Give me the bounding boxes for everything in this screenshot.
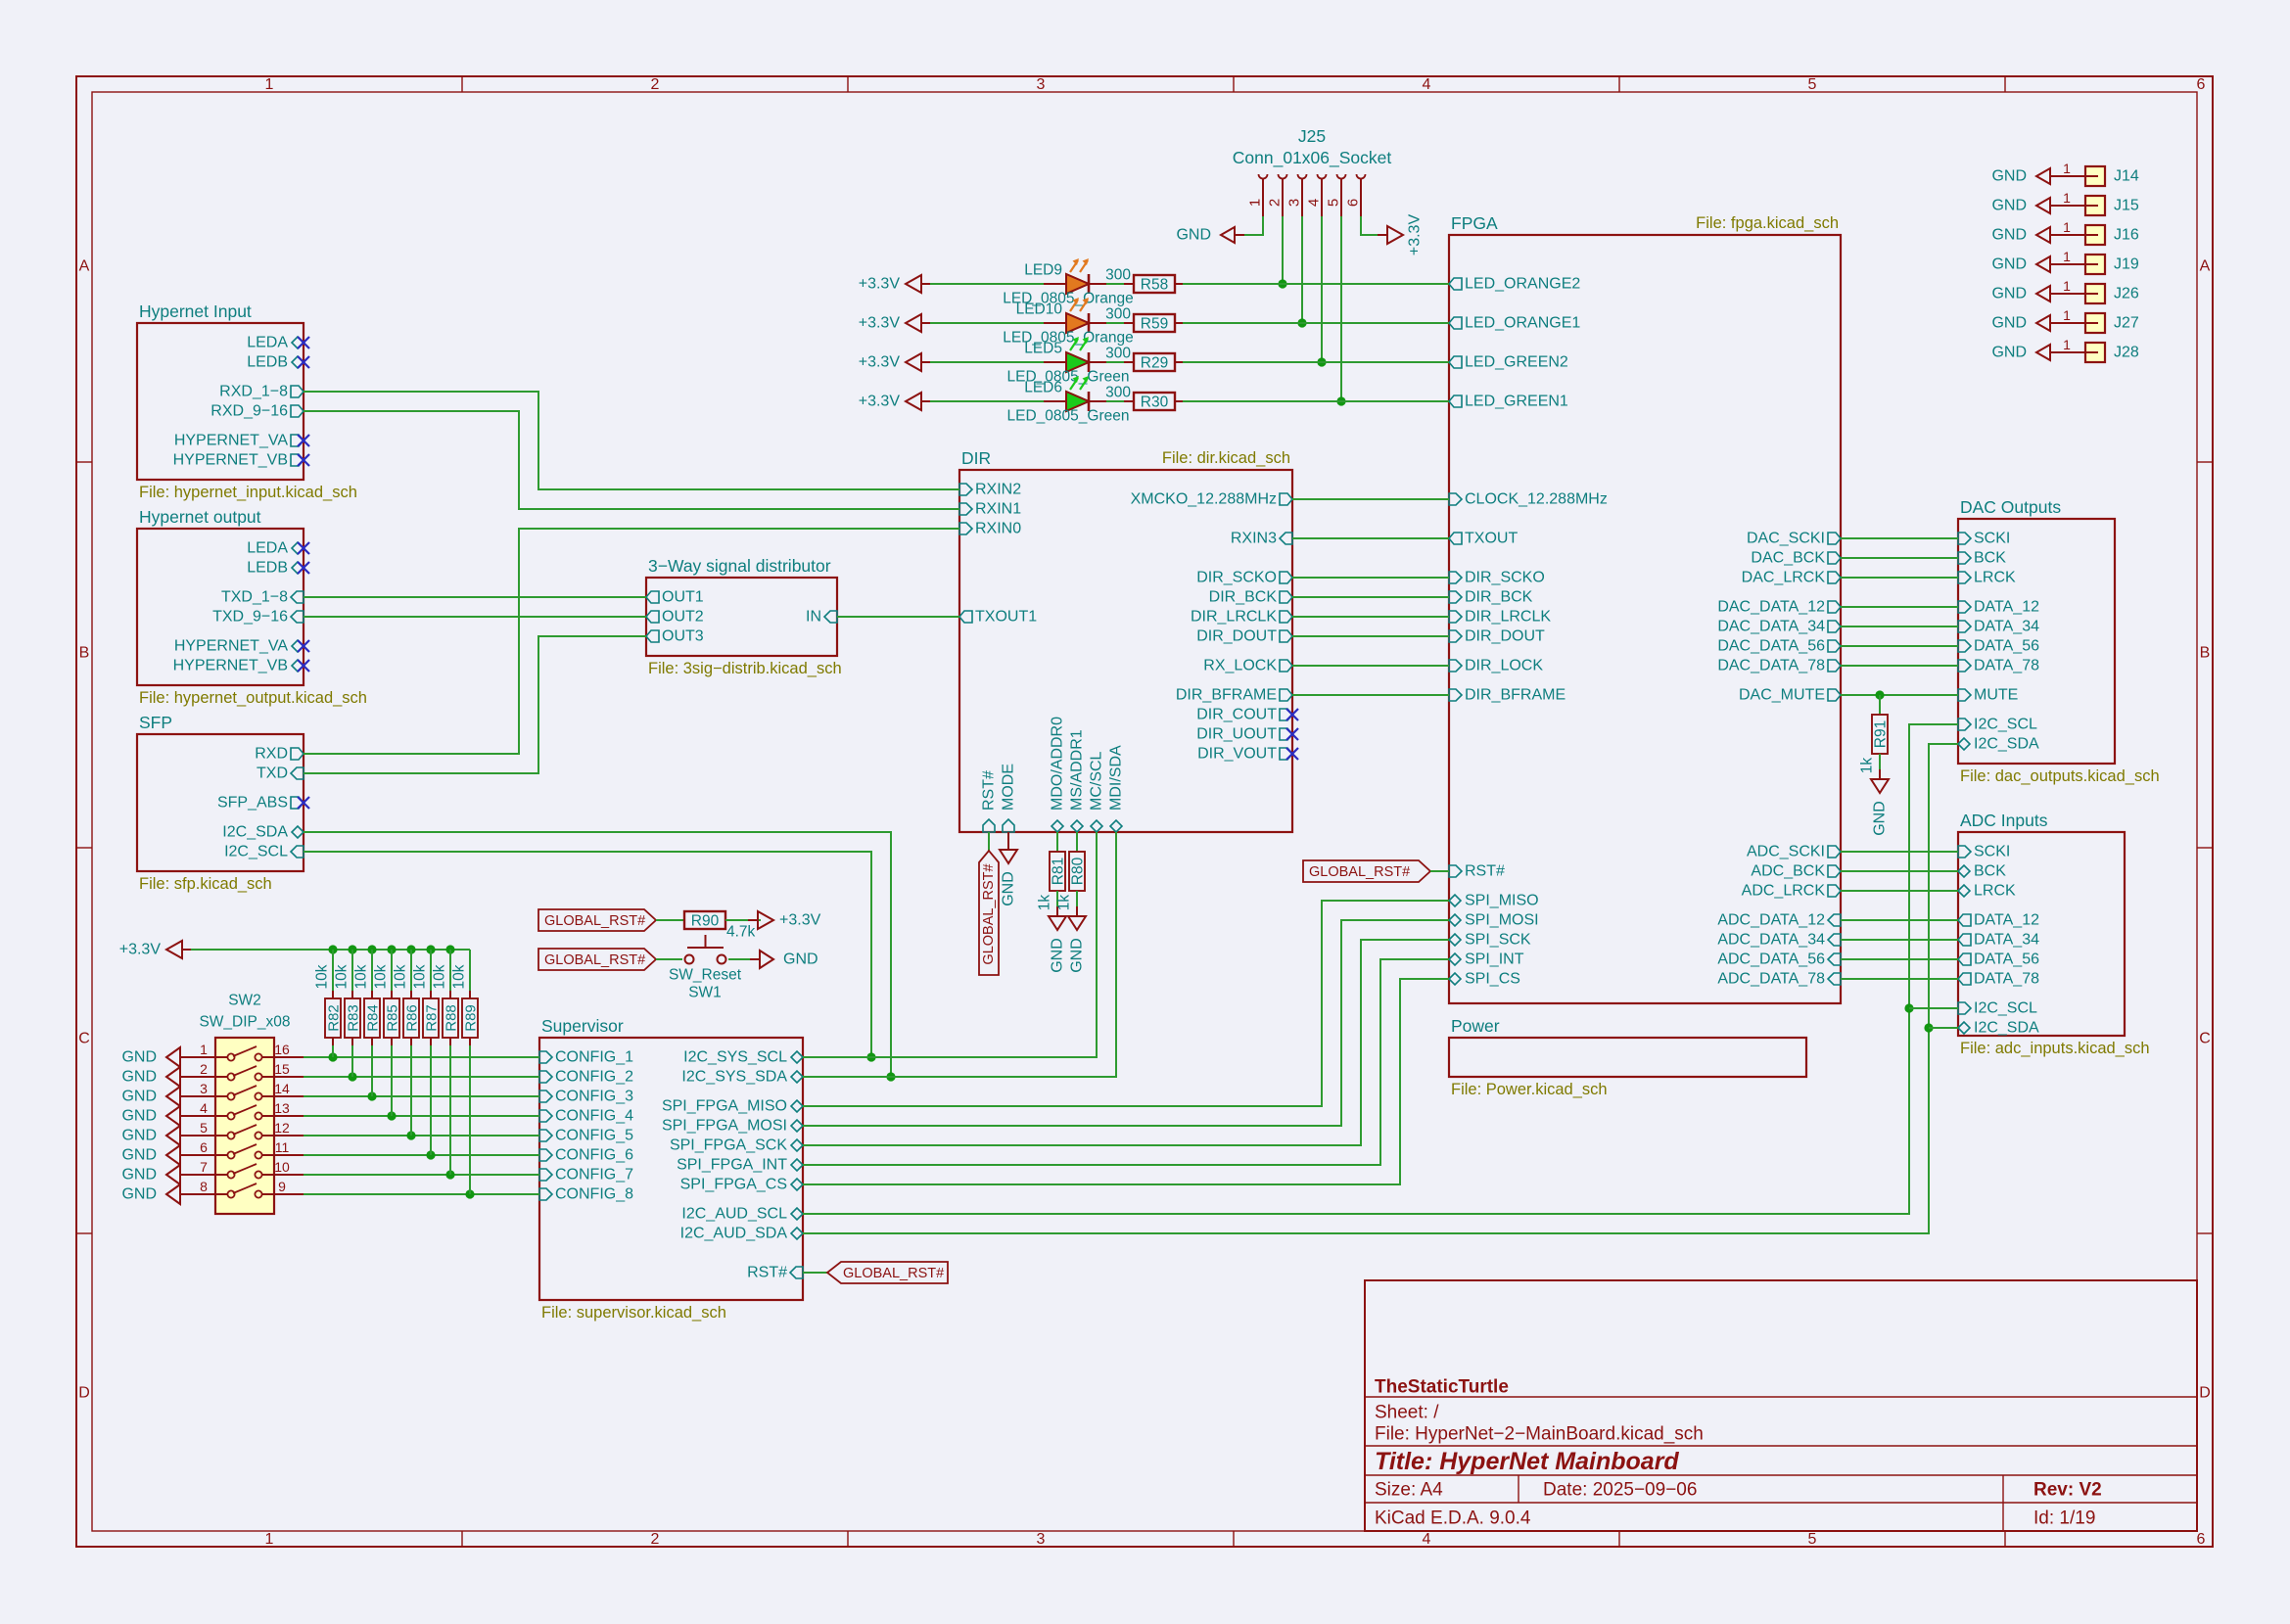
wire DIR_BFRAME (1292, 694, 1449, 696)
wire SPI_FPGA_MISO (803, 901, 1449, 1106)
svg-text:1: 1 (2063, 161, 2071, 176)
sheet pin FPGA ADC_BCK (1751, 863, 1841, 880)
power +3.3V at LED9 (859, 275, 931, 293)
svg-text:4: 4 (1423, 1531, 1431, 1548)
svg-text:GND: GND (121, 1108, 157, 1125)
svg-text:Power: Power (1451, 1016, 1500, 1036)
sheet pin DAC Outputs I2C_SDA (1958, 736, 2039, 753)
svg-text:DIR_LRCLK: DIR_LRCLK (1191, 609, 1277, 626)
svg-text:DAC_BCK: DAC_BCK (1751, 550, 1825, 567)
value 10k of R88 (432, 964, 448, 989)
sheet pin Hypernet output TXD_9−16 (212, 609, 304, 626)
svg-text:+3.3V: +3.3V (859, 394, 901, 410)
no-connect Hypernet Input HYPERNET_VB (298, 454, 309, 466)
resistor R80 (1069, 852, 1087, 891)
svg-text:GND: GND (121, 1069, 157, 1086)
sheet pin DAC Outputs DATA_34 (1958, 619, 2039, 635)
sheet pin DIR RXIN3 (1231, 531, 1292, 547)
sheet pin FPGA LED_GREEN1 (1449, 394, 1568, 410)
value LED_0805_Green (1007, 369, 1130, 386)
wire GLOBAL_RST# to FPGA RST# (1430, 870, 1449, 872)
wire +3.3V to R85 (391, 950, 393, 991)
svg-text:SPI_CS: SPI_CS (1465, 971, 1520, 988)
SW2 pole 7 (190, 1159, 304, 1179)
svg-text:DIR_SCKO: DIR_SCKO (1196, 570, 1277, 586)
sheet pin FPGA CLOCK_12.288MHz (1449, 491, 1608, 508)
sheet pin Supervisor CONFIG_6 (539, 1147, 633, 1164)
power +3.3V at LED5 (859, 353, 931, 371)
sheet pin FPGA DAC_MUTE (1739, 687, 1841, 704)
sheet pin ADC Inputs LRCK (1958, 883, 2016, 900)
sheet pin DIR MS/ADDR1 (1069, 729, 1086, 832)
junction LED_GREEN1 net (1336, 396, 1345, 405)
svg-text:15: 15 (274, 1061, 290, 1077)
power GND below R81 (1049, 906, 1066, 973)
pin stub R59 (1124, 322, 1134, 324)
value 300 of R59 (1105, 306, 1131, 323)
title block sheet id (2033, 1508, 2095, 1529)
svg-text:LRCK: LRCK (1974, 883, 2016, 900)
svg-text:GND: GND (783, 951, 818, 968)
sheet pin FPGA DIR_SCKO (1449, 570, 1545, 586)
svg-text:MODE: MODE (1001, 764, 1017, 811)
svg-text:+3.3V: +3.3V (859, 354, 901, 371)
value 300 of R30 (1105, 385, 1131, 401)
sheet file File: Power.kicad_sch (1451, 1081, 1608, 1098)
svg-text:A: A (79, 258, 90, 275)
sheet pin DIR DIR_DOUT (1196, 628, 1292, 645)
svg-text:14: 14 (274, 1081, 290, 1096)
wire LED6 to R30 (1106, 400, 1124, 402)
resistor R83 (345, 998, 362, 1038)
switch SW1 SW_Reset (685, 935, 726, 964)
wire R80 to GND (1076, 891, 1078, 916)
sheet pin FPGA RST# (1449, 863, 1505, 880)
svg-text:File: sfp.kicad_sch: File: sfp.kicad_sch (139, 875, 272, 893)
svg-text:J16: J16 (2114, 227, 2139, 244)
svg-text:HYPERNET_VA: HYPERNET_VA (174, 638, 289, 655)
svg-text:GND: GND (121, 1128, 157, 1144)
svg-text:R82: R82 (326, 1004, 343, 1032)
sheet pin ADC Inputs DATA_78 (1958, 971, 2039, 988)
wire SPI_FPGA_INT (803, 959, 1449, 1165)
svg-text:SW_Reset: SW_Reset (669, 967, 742, 984)
title block revision (2033, 1480, 2102, 1501)
svg-text:LED_GREEN2: LED_GREEN2 (1465, 354, 1568, 371)
sheet pin Hypernet output LEDA (247, 540, 304, 557)
svg-text:SPI_FPGA_CS: SPI_FPGA_CS (680, 1177, 787, 1193)
wire TXD_1-8 to OUT1 (304, 596, 646, 598)
wire DIR_LOCK (1292, 665, 1449, 667)
SW2 pole 5 (190, 1120, 304, 1139)
sheet pin FPGA ADC_DATA_78 (1717, 971, 1841, 988)
J25 pin 5 (1326, 174, 1346, 216)
wire +3.3V to LED10 (930, 322, 1044, 324)
svg-text:RST#: RST# (747, 1265, 787, 1281)
svg-text:GND: GND (1050, 938, 1066, 973)
J25 pin 2 (1267, 174, 1287, 216)
sheet pin ADC Inputs DATA_56 (1958, 951, 2039, 968)
sheet pin ADC Inputs DATA_12 (1958, 912, 2039, 929)
wire J25 pin4 to LED_GREEN2 net (1321, 216, 1323, 362)
sheet 3-Way signal distributor (646, 578, 837, 656)
svg-text:File: Power.kicad_sch: File: Power.kicad_sch (1451, 1081, 1608, 1098)
pin stub right R30 (1175, 400, 1183, 402)
svg-text:J25: J25 (1298, 126, 1326, 146)
svg-text:File: supervisor.kicad_sch: File: supervisor.kicad_sch (541, 1304, 726, 1322)
reference LED10 (1016, 302, 1063, 318)
sheet file File: dac_outputs.kicad_sch (1960, 767, 2160, 785)
svg-text:MDO/ADDR0: MDO/ADDR0 (1050, 717, 1066, 811)
svg-text:10k: 10k (451, 964, 468, 989)
svg-text:4.7k: 4.7k (726, 924, 756, 941)
svg-text:HYPERNET_VA: HYPERNET_VA (174, 433, 289, 449)
sheet pin Hypernet Input LEDA (247, 335, 304, 351)
svg-text:File: dir.kicad_sch: File: dir.kicad_sch (1162, 449, 1290, 467)
value 10k of R86 (393, 964, 409, 989)
svg-text:Conn_01x06_Socket: Conn_01x06_Socket (1233, 148, 1392, 168)
svg-text:D: D (2199, 1385, 2211, 1402)
svg-text:TXOUT: TXOUT (1465, 531, 1518, 547)
svg-text:2: 2 (651, 76, 660, 93)
junction LED_ORANGE2 net (1278, 279, 1286, 288)
sheet pin SFP TXD (257, 766, 304, 782)
svg-text:DAC Outputs: DAC Outputs (1960, 497, 2061, 517)
value 300 of R29 (1105, 346, 1131, 362)
svg-text:MS/ADDR1: MS/ADDR1 (1069, 729, 1086, 811)
svg-text:I2C_AUD_SCL: I2C_AUD_SCL (681, 1206, 787, 1223)
svg-text:4: 4 (1306, 199, 1323, 207)
svg-text:9: 9 (278, 1179, 286, 1194)
sheet pin Hypernet Input RXD_1−8 (219, 384, 304, 400)
wire R84 to row (371, 1045, 373, 1096)
svg-text:5: 5 (1326, 199, 1342, 207)
sheet FPGA (1449, 235, 1841, 1003)
svg-text:I2C_SYS_SCL: I2C_SYS_SCL (683, 1049, 787, 1066)
sheet pin Supervisor CONFIG_5 (539, 1128, 633, 1144)
wire ADC_DATA_34 (1841, 939, 1958, 941)
sheet pin DAC Outputs BCK (1958, 550, 2006, 567)
wire DAC_DATA_34 (1841, 626, 1958, 627)
value 300 of R58 (1105, 267, 1131, 284)
svg-text:R85: R85 (385, 1004, 401, 1032)
value 4.7k placement fix (726, 924, 756, 941)
svg-text:I2C_SYS_SDA: I2C_SYS_SDA (681, 1069, 787, 1086)
svg-text:1: 1 (265, 1531, 274, 1548)
sheet file File: dir.kicad_sch (1162, 449, 1290, 467)
J25 pin 1 (1247, 174, 1268, 216)
svg-text:J19: J19 (2114, 256, 2139, 273)
svg-text:LED_ORANGE2: LED_ORANGE2 (1465, 276, 1580, 293)
svg-text:C: C (78, 1031, 90, 1047)
sheet pin distributor OUT2 (646, 609, 704, 626)
sheet pin FPGA LED_GREEN2 (1449, 354, 1568, 371)
svg-text:ADC_BCK: ADC_BCK (1751, 863, 1825, 880)
sheet pin DAC Outputs LRCK (1958, 570, 2016, 586)
svg-text:10: 10 (274, 1159, 290, 1175)
svg-text:GND: GND (1176, 227, 1211, 244)
svg-text:11: 11 (275, 1139, 290, 1155)
wire SW2 pin 9 to Supervisor CONFIG_8 (304, 1189, 539, 1198)
connector J15 (2060, 190, 2139, 215)
pin stub R58 (1124, 283, 1134, 285)
svg-text:Supervisor: Supervisor (541, 1016, 624, 1036)
wire DAC_BCK (1841, 557, 1958, 559)
wire J25 pin5 to LED_GREEN1 net (1340, 216, 1342, 401)
value 10k of R82 (314, 964, 331, 989)
wire R89 to row (469, 1045, 471, 1194)
wire TXD_9-16 to OUT2 (304, 616, 646, 618)
sheet pin DIR DIR_BCK (1209, 589, 1292, 606)
power GND at SW2 pin 7 (121, 1165, 190, 1184)
sheet pin DIR XMCKO_12.288MHz (1131, 491, 1292, 508)
wire LED5 to R29 (1106, 361, 1124, 363)
wire R29 to FPGA LED_GREEN2 (1183, 361, 1449, 363)
svg-text:SPI_SCK: SPI_SCK (1465, 932, 1531, 949)
sheet pin FPGA ADC_DATA_12 (1717, 912, 1841, 929)
sheet pin Supervisor SPI_FPGA_MOSI (662, 1118, 803, 1135)
wire J25 pin6 to +3.3V (1361, 216, 1379, 235)
svg-text:Rev: V2: Rev: V2 (2033, 1480, 2102, 1501)
svg-text:I2C_SDA: I2C_SDA (222, 824, 288, 841)
svg-text:10k: 10k (334, 964, 351, 989)
svg-text:CONFIG_8: CONFIG_8 (555, 1186, 633, 1203)
connector J27 (2060, 307, 2139, 333)
sheet pin DIR RXIN2 (959, 482, 1021, 498)
svg-text:ADC_DATA_56: ADC_DATA_56 (1717, 951, 1825, 968)
wire ADC_BCK (1841, 870, 1958, 872)
LED LED10 (1044, 298, 1106, 333)
no-connect Hypernet output HYPERNET_VB (298, 660, 309, 672)
svg-text:ADC_DATA_78: ADC_DATA_78 (1717, 971, 1825, 988)
svg-text:7: 7 (200, 1159, 208, 1175)
svg-text:SCKI: SCKI (1974, 531, 2010, 547)
svg-text:J28: J28 (2114, 345, 2139, 361)
svg-text:GND: GND (1001, 871, 1017, 906)
title block size (1375, 1480, 1443, 1501)
svg-text:B: B (79, 645, 90, 662)
svg-text:BCK: BCK (1974, 863, 2006, 880)
value 1k of R81 (1037, 895, 1053, 911)
wire J25 pin2 to LED_ORANGE2 net (1282, 216, 1284, 284)
sheet pin FPGA ADC_LRCK (1742, 883, 1841, 900)
svg-text:R90: R90 (691, 913, 720, 930)
power GND below R91 (1871, 769, 1889, 836)
svg-text:RXIN2: RXIN2 (975, 482, 1021, 498)
wire SW2 pin 10 to Supervisor CONFIG_7 (304, 1170, 539, 1179)
svg-text:I2C_SCL: I2C_SCL (1974, 1000, 2037, 1017)
wire distributor IN to DIR TXOUT1 (837, 616, 959, 618)
sheet pin Supervisor SPI_FPGA_MISO (662, 1098, 803, 1115)
wire DIR RST# to GLOBAL_RST# label (988, 832, 990, 851)
sheet pin FPGA LED_ORANGE2 (1449, 276, 1580, 293)
svg-text:GLOBAL_RST#: GLOBAL_RST# (843, 1266, 944, 1281)
svg-text:3: 3 (1037, 76, 1046, 93)
resistor R86 (403, 998, 421, 1038)
svg-text:R59: R59 (1141, 316, 1168, 333)
svg-text:TXD_9−16: TXD_9−16 (212, 609, 288, 626)
resistor R81 (1050, 852, 1067, 891)
wire Supervisor RST# to GLOBAL_RST# (803, 1272, 827, 1274)
svg-text:GND: GND (1991, 198, 2027, 214)
title block company TheStaticTurtle (1375, 1377, 1509, 1398)
pin stub R30 (1124, 400, 1134, 402)
sheet pin Supervisor CONFIG_2 (539, 1069, 633, 1086)
LED LED6 (1044, 376, 1106, 411)
reference LED9 (1024, 262, 1062, 279)
svg-text:3: 3 (200, 1081, 208, 1096)
sheet pin DIR MDO/ADDR0 (1050, 717, 1066, 832)
svg-text:ADC Inputs: ADC Inputs (1960, 811, 2048, 830)
svg-text:KiCad E.D.A. 9.0.4: KiCad E.D.A. 9.0.4 (1375, 1508, 1531, 1529)
sheet name FPGA (1451, 213, 1498, 233)
svg-text:File: hypernet_output.kicad_sc: File: hypernet_output.kicad_sch (139, 689, 367, 707)
svg-text:6: 6 (2197, 1531, 2206, 1548)
sheet pin FPGA SPI_INT (1449, 951, 1524, 968)
svg-text:J27: J27 (2114, 315, 2139, 332)
wire J25 pin1 to GND (1244, 216, 1263, 235)
reference LED5 (1024, 341, 1062, 357)
hierarchical label GLOBAL_RST# (at Supervisor RST#) (827, 1262, 948, 1283)
svg-text:DIR_BCK: DIR_BCK (1465, 589, 1533, 606)
pin stub right R59 (1175, 322, 1183, 324)
svg-text:File: dac_outputs.kicad_sch: File: dac_outputs.kicad_sch (1960, 767, 2160, 785)
svg-text:GND: GND (1991, 286, 2027, 302)
wire R87 to row (430, 1045, 432, 1155)
svg-text:DAC_DATA_78: DAC_DATA_78 (1717, 658, 1825, 674)
svg-text:LED9: LED9 (1024, 262, 1062, 279)
sheet ADC Inputs (1958, 832, 2125, 1036)
wire DIR_SCKO (1292, 577, 1449, 579)
sheet pin DIR RX_LOCK (1203, 658, 1292, 674)
wire SFP I2C_SCL to I2C_SYS_SCL (304, 852, 876, 1062)
svg-text:16: 16 (274, 1042, 290, 1057)
hierarchical label GLOBAL_RST# (to FPGA RST#) (1303, 860, 1430, 882)
svg-text:ADC_SCKI: ADC_SCKI (1747, 844, 1825, 860)
wire +3.3V to R83 (351, 950, 353, 991)
svg-text:10k: 10k (412, 964, 429, 989)
svg-text:OUT3: OUT3 (662, 628, 704, 645)
sheet pin Hypernet output TXD_1−8 (221, 589, 304, 606)
junction LED_GREEN2 net (1317, 357, 1326, 366)
resistor R89 (462, 998, 480, 1038)
svg-text:SPI_FPGA_MISO: SPI_FPGA_MISO (662, 1098, 787, 1115)
sheet pin Supervisor SPI_FPGA_CS (680, 1177, 803, 1193)
resistor R91 (1872, 715, 1890, 754)
wire DIR_BCK (1292, 596, 1449, 598)
wire J25 pin3 to LED_ORANGE1 net (1301, 216, 1303, 323)
svg-text:CONFIG_3: CONFIG_3 (555, 1089, 633, 1105)
wire DIR_LRCLK (1292, 616, 1449, 618)
value 1k of R80 (1056, 895, 1073, 911)
svg-text:3: 3 (1286, 199, 1303, 207)
wire +3.3V to LED6 (930, 400, 1044, 402)
svg-text:1: 1 (2063, 278, 2071, 294)
wire SW2 pin 16 to Supervisor CONFIG_1 (304, 1052, 539, 1061)
sheet pin DIR DIR_UOUT (1196, 726, 1292, 743)
sheet pin Hypernet output HYPERNET_VA (174, 638, 304, 655)
resistor R85 (384, 998, 401, 1038)
svg-text:DATA_12: DATA_12 (1974, 599, 2039, 616)
svg-text:Date: 2025−09−06: Date: 2025−09−06 (1543, 1480, 1697, 1501)
J25 pin 6 (1345, 174, 1366, 216)
svg-text:5: 5 (1808, 1531, 1817, 1548)
svg-text:TXD_1−8: TXD_1−8 (221, 589, 288, 606)
sheet pin Supervisor SPI_FPGA_SCK (670, 1137, 803, 1154)
wire ADC_SCKI (1841, 851, 1958, 853)
wire R83 to row (351, 1045, 353, 1077)
no-connect DIR DIR_COUT (1286, 709, 1298, 720)
wire GLOBAL_RST# to R90 (656, 919, 684, 921)
LED LED5 (1044, 337, 1106, 372)
svg-text:GND: GND (121, 1049, 157, 1066)
LED LED9 (1044, 258, 1106, 294)
wire +3.3V to R89 (469, 950, 471, 991)
pin stub R29 (1124, 361, 1134, 363)
sheet DAC Outputs (1958, 519, 2115, 764)
svg-text:MDI/SDA: MDI/SDA (1108, 745, 1125, 811)
svg-text:MUTE: MUTE (1974, 687, 2018, 704)
sheet pin Hypernet Input RXD_9−16 (210, 403, 304, 420)
value 10k of R85 (373, 964, 390, 989)
sheet pin Supervisor I2C_SYS_SCL (683, 1049, 803, 1066)
svg-text:6: 6 (1345, 199, 1362, 207)
connector J14 (2060, 161, 2139, 186)
power GND at J16 (1991, 227, 2060, 244)
svg-text:R87: R87 (424, 1004, 441, 1032)
svg-text:OUT1: OUT1 (662, 589, 704, 606)
wire RXD_1-8 to DIR RXIN2 (304, 392, 959, 489)
sheet pin DAC Outputs DATA_12 (1958, 599, 2039, 616)
hierarchical label GLOBAL_RST# (to R90) (538, 909, 656, 931)
sheet pin DAC Outputs MUTE (1958, 687, 2018, 704)
sheet pin FPGA DIR_DOUT (1449, 628, 1545, 645)
svg-text:HYPERNET_VB: HYPERNET_VB (173, 658, 288, 674)
wire R86 to row (410, 1045, 412, 1136)
svg-text:HYPERNET_VB: HYPERNET_VB (173, 452, 288, 469)
svg-text:SPI_FPGA_MOSI: SPI_FPGA_MOSI (662, 1118, 787, 1135)
svg-text:GND: GND (1991, 256, 2027, 273)
svg-text:RXIN3: RXIN3 (1231, 531, 1277, 547)
svg-text:10k: 10k (314, 964, 331, 989)
sheet pin FPGA DAC_BCK (1751, 550, 1841, 567)
svg-text:Sheet: /: Sheet: / (1375, 1403, 1439, 1423)
reference SW1 / value SW_Reset (669, 967, 742, 1001)
wire R91 to GND (1879, 754, 1881, 779)
svg-text:A: A (2200, 258, 2211, 275)
sheet pin ADC Inputs DATA_34 (1958, 932, 2039, 949)
svg-text:SCKI: SCKI (1974, 844, 2010, 860)
sheet name ADC Inputs (1960, 811, 2048, 830)
wire MS/ADDR1 to R80 (1076, 832, 1078, 852)
pin stub R82 (332, 991, 334, 1045)
wire ADC_DATA_78 (1841, 978, 1958, 980)
svg-text:DIR_BFRAME: DIR_BFRAME (1176, 687, 1277, 704)
pin stub R88 (449, 991, 451, 1045)
sheet pin FPGA SPI_SCK (1449, 932, 1531, 949)
connector J19 (2060, 249, 2139, 274)
wire SW2 pin 12 to Supervisor CONFIG_5 (304, 1131, 539, 1139)
sheet pin ADC Inputs I2C_SCL (1958, 1000, 2037, 1017)
sheet pin Supervisor CONFIG_3 (539, 1089, 633, 1105)
power +3.3V at LED10 (859, 314, 931, 332)
svg-text:DATA_34: DATA_34 (1974, 932, 2039, 949)
svg-text:TXOUT1: TXOUT1 (975, 609, 1037, 626)
svg-text:SFP: SFP (139, 713, 172, 732)
svg-text:XMCKO_12.288MHz: XMCKO_12.288MHz (1131, 491, 1277, 508)
svg-text:DATA_12: DATA_12 (1974, 912, 2039, 929)
wire SW2 pin 15 to Supervisor CONFIG_2 (304, 1072, 539, 1081)
